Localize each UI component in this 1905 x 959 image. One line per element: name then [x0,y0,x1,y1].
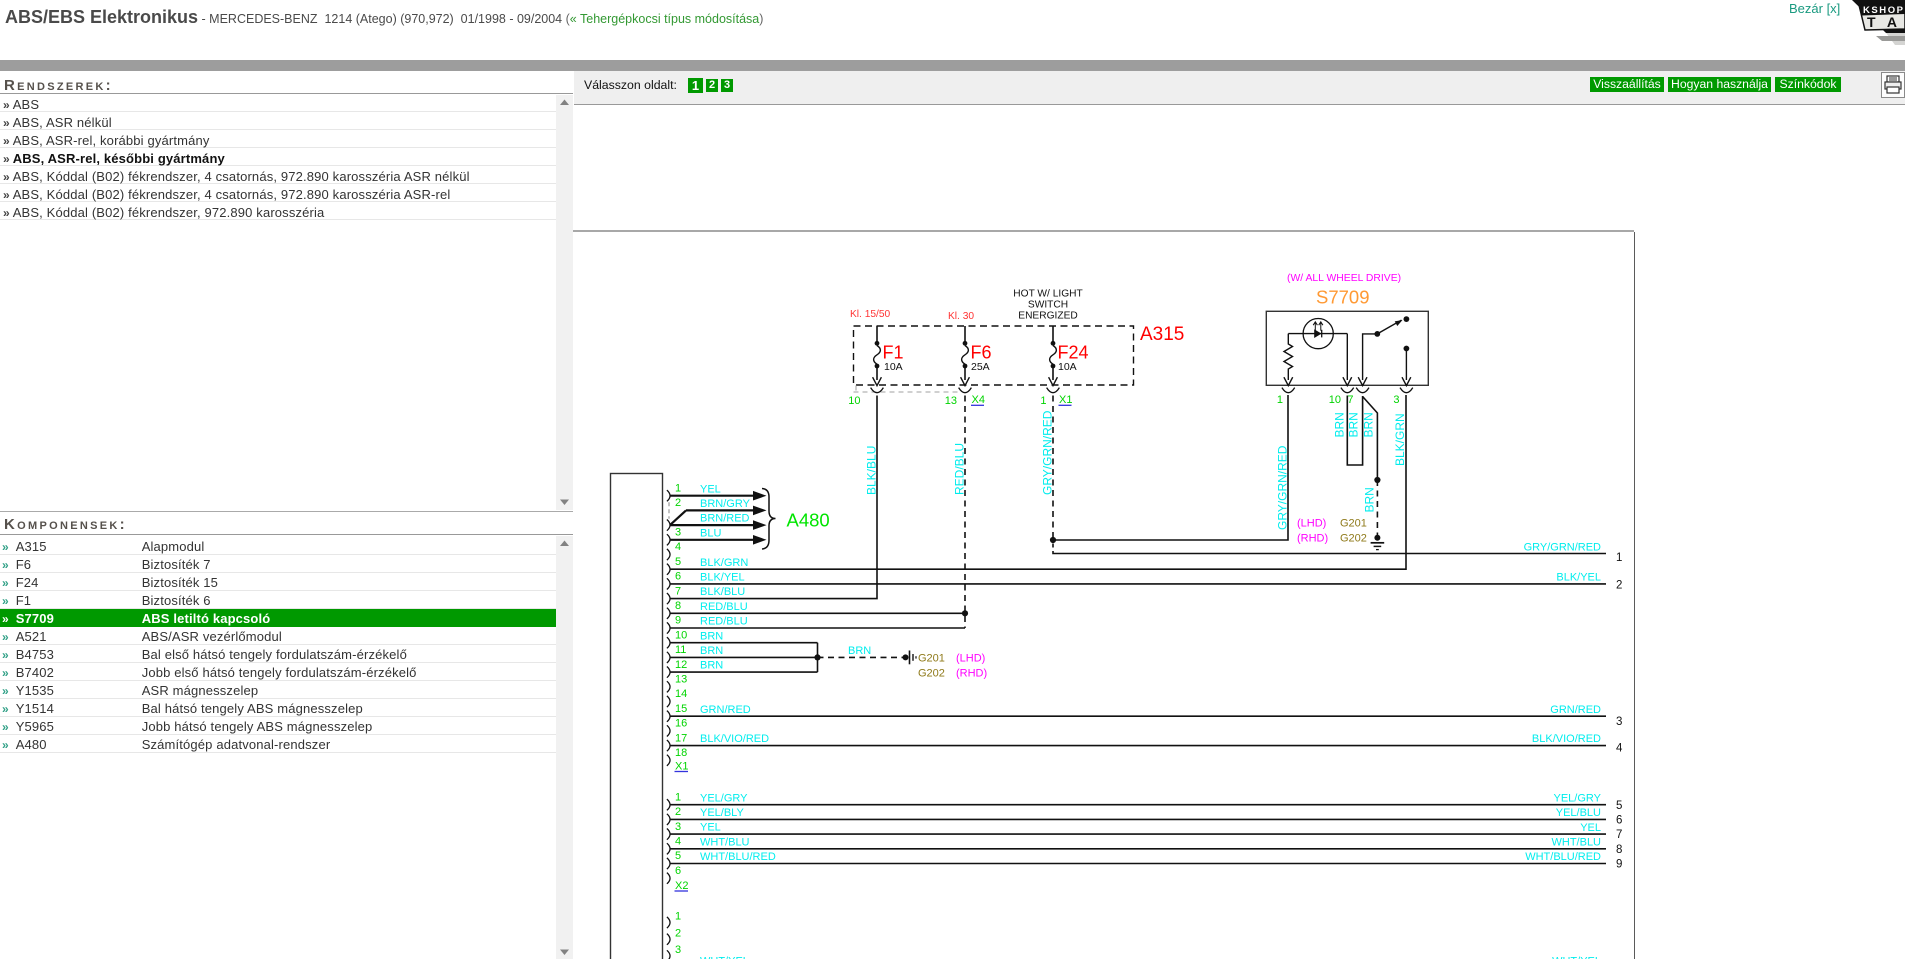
switch lower contact dot [1404,346,1410,352]
dashed wire BRN to ground G201 [818,656,906,658]
svg-text:A480: A480 [787,510,830,531]
toolbar buttons right [1590,77,1664,92]
link X4 [971,394,985,406]
svg-text:9: 9 [1616,859,1622,871]
svg-text:8: 8 [675,600,681,612]
svg-text:BRN/GRY: BRN/GRY [700,498,751,510]
labels G201 G202 LHD RHD [918,653,987,680]
svg-text:9: 9 [675,615,681,627]
ECU control-module box A521 [611,474,663,959]
svg-text:X1: X1 [675,761,688,773]
svg-text:15: 15 [675,703,687,715]
svg-text:BLK/YEL: BLK/YEL [700,572,745,584]
svg-text:8: 8 [1616,844,1622,856]
diagonal wire BRN from pin7 [1363,397,1378,481]
link X1 at F24 [1059,394,1073,406]
svg-text:10A: 10A [884,361,903,373]
S7709 pin connectors [1282,388,1413,393]
svg-text:7: 7 [1616,829,1622,841]
divider above KOMPONENSEK [0,511,573,512]
svg-text:YEL/BLY: YEL/BLY [700,807,744,819]
svg-text:6: 6 [675,865,681,877]
labels (LHD) G201 / (RHD) G202 [1297,518,1367,545]
svg-text:BLK/BLU: BLK/BLU [865,446,879,495]
diagram frame top bar [573,230,1634,232]
svg-text:(LHD): (LHD) [1297,518,1326,530]
connector group-3 pin arcs [667,917,670,959]
svg-text:RED/BLU: RED/BLU [953,443,967,495]
svg-text:2: 2 [1616,580,1622,592]
svg-text:BLK/BLU: BLK/BLU [700,586,745,598]
connector X1 pin arcs [667,490,670,766]
wire BRN pin10 [670,642,818,644]
svg-text:18: 18 [675,747,687,759]
connector below F1 [871,388,884,393]
svg-text:WHT/BLU: WHT/BLU [700,836,750,848]
BRN bus vertical [817,643,819,672]
svg-text:3: 3 [675,527,681,539]
svg-text:BRN/RED: BRN/RED [700,513,750,525]
svg-text:(W/ ALL WHEEL DRIVE): (W/ ALL WHEEL DRIVE) [1287,273,1401,284]
svg-text:10: 10 [675,629,687,641]
wire BRN/RED pin2 to A480 [670,520,767,530]
svg-text:G201: G201 [918,653,945,665]
svg-text:RED/BLU: RED/BLU [700,601,748,613]
connector X2 pin numbers [675,791,681,877]
link X2 [675,880,689,892]
svg-text:2: 2 [675,806,681,818]
svg-text:(RHD): (RHD) [956,668,987,680]
fuse F6 [961,326,992,386]
svg-text:10A: 10A [1058,361,1077,373]
wire BLU pin3 to A480 [670,535,767,545]
wire BLK/GRN pin5 to S7709 pin3 [670,395,1406,569]
wire BRN pin11 [670,656,818,658]
toolbar strip [574,71,1905,105]
svg-text:ENERGIZED: ENERGIZED [1018,311,1077,322]
svg-text:12: 12 [675,659,687,671]
X2 wire colour labels [700,792,776,863]
wire BRN/GRY pin2 to A480 [670,506,767,525]
right edge wire numbers [1616,552,1623,871]
svg-text:YEL/GRY: YEL/GRY [700,792,748,804]
wire RED/BLU pin9 to fuse F6 [670,627,965,629]
svg-text:1: 1 [675,482,681,494]
link X1 [675,761,689,773]
svg-text:10: 10 [1329,394,1341,406]
svg-text:1: 1 [675,911,681,923]
connector below F24 [1047,388,1060,393]
svg-text:BRN: BRN [848,645,871,657]
wire BRN pin12 [670,671,818,673]
svg-text:5: 5 [1616,800,1622,812]
svg-text:3: 3 [1616,716,1622,728]
svg-text:1: 1 [1616,552,1622,564]
switch S7709 box [1266,311,1428,385]
svg-text:GRY/GRN/RED: GRY/GRN/RED [1524,541,1601,553]
fuse carrier sub-outline [854,386,959,393]
wire to S7709 pin1 [1053,395,1288,540]
connector X2 pin arcs [667,799,670,884]
wire lower contact to pin 3 [1405,349,1407,381]
svg-text:BRN: BRN [1333,412,1347,437]
dashed wire BRN to ground [1376,480,1378,536]
brace for A480 bus [762,489,776,550]
page title [5,7,763,28]
svg-text:7: 7 [675,585,681,597]
svg-text:6: 6 [675,571,681,583]
svg-text:BLK/GRN: BLK/GRN [700,557,748,569]
svg-text:X2: X2 [675,880,688,892]
switch arm with arrow [1377,320,1402,334]
dashed wire GRY/GRN/RED from F24 [1052,396,1054,541]
left panel: RENDSZEREK header [4,77,113,94]
svg-text:WHT/BLU/RED: WHT/BLU/RED [1525,851,1601,863]
svg-text:Kl. 15/50: Kl. 15/50 [850,309,891,320]
connector below F6 [959,388,972,393]
svg-text:17: 17 [675,732,687,744]
svg-text:5: 5 [675,556,681,568]
svg-text:BRN: BRN [700,630,723,642]
resistor inside S7709 [1284,334,1293,380]
svg-text:A315: A315 [1140,324,1184,345]
svg-text:G202: G202 [1340,533,1367,545]
svg-text:16: 16 [675,718,687,730]
switch upper contact dot [1404,316,1410,322]
page button 2 [706,79,718,92]
svg-text:14: 14 [675,688,687,700]
systems list scrollbar [556,95,573,510]
svg-text:10: 10 [848,395,860,407]
svg-text:BRN: BRN [700,645,723,657]
svg-text:F24: F24 [1058,343,1089,363]
indicator lamp (LED) inside S7709 [1288,319,1347,349]
right edge wire colour labels [1524,541,1602,863]
X2 wires to edge 5-9 [670,804,1606,806]
svg-text:BRN: BRN [1347,412,1361,437]
switch common leg pin 7 [1363,334,1375,380]
svg-text:G201: G201 [1340,518,1367,530]
close link Bezar [x] [1789,1,1840,16]
S7709 pin arrows at box bottom [1284,377,1411,385]
systems list [0,94,556,112]
workshop data logo [1840,0,1905,62]
wire GRN/RED pin15 to edge 3 [670,715,1606,717]
gray separator bar [0,60,1905,71]
S7709 pin numbers [1277,394,1400,406]
svg-text:4: 4 [675,541,681,553]
svg-text:GRY/GRN/RED: GRY/GRN/RED [1276,445,1290,530]
print button [1881,72,1905,98]
group-3 pin numbers [675,911,681,956]
diagram frame right border [1634,232,1635,959]
lamp leg to pin 10 [1346,334,1348,380]
svg-text:3: 3 [1393,394,1399,406]
svg-text:13: 13 [675,674,687,686]
svg-text:3: 3 [675,944,681,956]
components list scrollbar [556,536,573,959]
svg-text:WHT/BLU: WHT/BLU [1552,837,1602,849]
svg-text:GRN/RED: GRN/RED [700,704,751,716]
page button 3 [721,79,733,92]
svg-text:BLU: BLU [700,527,721,539]
svg-text:13: 13 [945,395,957,407]
svg-text:3: 3 [675,821,681,833]
svg-text:WHT/YEL: WHT/YEL [700,955,749,959]
fuse F1 [873,326,904,386]
svg-text:5: 5 [675,850,681,862]
svg-text:25A: 25A [971,361,990,373]
junction dot BRN [814,654,820,660]
wire BLK/BLU pin7 to fuse F1 [670,396,877,599]
svg-text:X1: X1 [1059,394,1072,406]
svg-text:F6: F6 [971,343,992,363]
svg-text:2: 2 [675,927,681,939]
svg-text:WHT/BLU/RED: WHT/BLU/RED [700,851,776,863]
junction dot BRN [1374,477,1380,483]
svg-text:BLK/YEL: BLK/YEL [1556,572,1601,584]
svg-text:11: 11 [675,644,686,656]
svg-text:SWITCH: SWITCH [1028,300,1068,311]
svg-text:BLK/GRN: BLK/GRN [1393,413,1407,466]
svg-text:(LHD): (LHD) [956,653,985,665]
dashed wire RED/BLU from F6 down [964,396,966,629]
svg-text:2: 2 [675,497,681,509]
components list [0,537,556,555]
svg-text:1: 1 [675,791,681,803]
svg-text:GRN/RED: GRN/RED [1550,704,1601,716]
svg-text:BRN: BRN [1363,487,1377,512]
svg-text:RED/BLU: RED/BLU [700,616,748,628]
svg-text:6: 6 [1616,815,1622,827]
svg-text:YEL: YEL [700,483,721,495]
svg-text:YEL: YEL [700,822,721,834]
wire RED/BLU pin8 to junction [670,612,965,614]
KOMPONENSEK header [4,516,127,533]
svg-text:BRN: BRN [1362,412,1376,437]
svg-text:4: 4 [1616,743,1623,755]
svg-text:4: 4 [675,836,681,848]
svg-text:1: 1 [1277,394,1283,406]
svg-text:F1: F1 [883,343,904,363]
svg-text:G202: G202 [918,668,945,680]
wire GRY/GRN/RED to edge 1 [1053,551,1606,554]
wire BLK/VIO/RED pin17 to edge 4 [670,745,1606,747]
ground G201/G202 (right-facing) [903,651,917,665]
svg-text:Kl. 30: Kl. 30 [948,311,974,322]
junction dot RED/BLU [962,610,968,616]
svg-text:HOT W/ LIGHT: HOT W/ LIGHT [1013,289,1082,300]
svg-text:7: 7 [1347,394,1353,406]
svg-text:X4: X4 [972,394,985,406]
page button 1 (selected) [688,78,703,93]
fuse F24 [1049,326,1089,386]
svg-text:YEL/BLU: YEL/BLU [1556,807,1601,819]
svg-text:BRN: BRN [700,660,723,672]
fuse box A315 dashed outline [854,326,1134,385]
svg-text:YEL/GRY: YEL/GRY [1554,792,1602,804]
junction dot GRY/GRN/RED [1050,537,1056,543]
dashed stub down [1052,544,1054,550]
svg-text:YEL: YEL [1580,822,1601,834]
svg-text:S7709: S7709 [1316,287,1370,308]
svg-text:WHT/YEL: WHT/YEL [1552,955,1601,959]
wire BLK/YEL pin6 to edge 2 [670,583,1606,585]
label HOT W/ LIGHT SWITCH ENERGIZED [1013,289,1082,322]
wire BRN jumper pin10-pin7 [1347,396,1362,466]
svg-text:(RHD): (RHD) [1297,533,1328,545]
switch pivot contact [1374,331,1380,337]
wire YEL pin1 to A480 [670,491,767,501]
connector X1 pin numbers [675,482,687,759]
ground symbol G201/G202 [1371,535,1385,550]
svg-text:BLK/VIO/RED: BLK/VIO/RED [700,733,769,745]
svg-text:BLK/VIO/RED: BLK/VIO/RED [1532,733,1601,745]
X1 wire colour labels [700,483,769,745]
svg-text:1: 1 [1040,395,1046,407]
